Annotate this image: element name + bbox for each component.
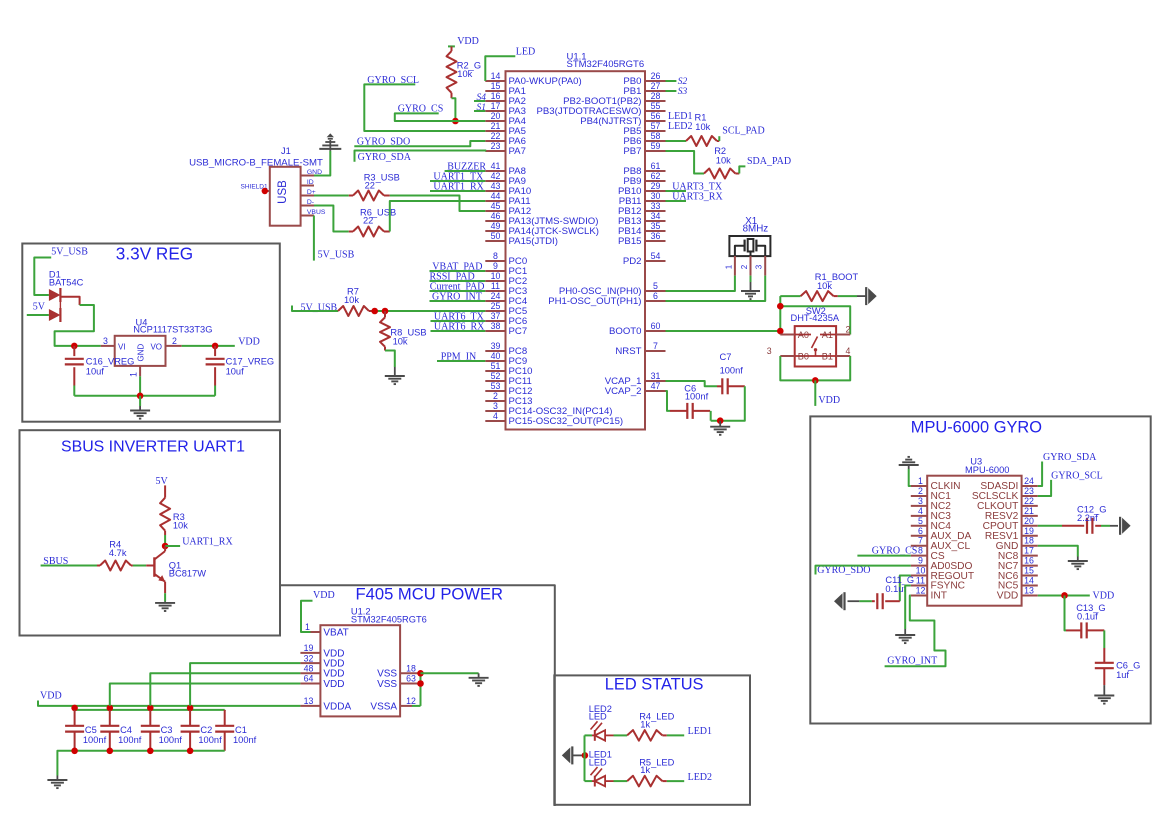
svg-text:0.1uf: 0.1uf <box>1077 612 1098 622</box>
U1.1 pin 50 PA15(JTDI) <box>485 231 558 247</box>
connector J1 USB_MICRO-B_FEMALE-SMT body <box>270 167 301 226</box>
svg-text:USB_MICRO-B_FEMALE-SMT: USB_MICRO-B_FEMALE-SMT <box>189 157 323 168</box>
wire U4 VO to VDD <box>182 345 235 347</box>
svg-text:36: 36 <box>651 231 661 241</box>
U3 pin 5 NC4 <box>911 516 951 532</box>
U1.1 pin 49 PA14(JTCK-SWCLK) <box>485 221 599 237</box>
ground (C6_G) <box>1094 685 1114 704</box>
wire BOOT0 to SW2 <box>666 330 781 332</box>
svg-text:25: 25 <box>491 301 501 311</box>
wire rail tie <box>74 706 76 710</box>
U1.1 pin 9 PC1 <box>485 261 527 277</box>
title F405 MCU POWER <box>356 585 504 604</box>
node junction SW2 bottom / VDD <box>812 377 819 384</box>
net label LED <box>516 46 535 57</box>
svg-text:34: 34 <box>651 211 661 221</box>
svg-text:PC7: PC7 <box>509 326 528 337</box>
wire GYRO_CS to CS pin 8 <box>857 555 910 557</box>
section box SBUS INVERTER UART1 <box>20 430 281 635</box>
node junction ground rail <box>147 748 154 755</box>
svg-text:0.1uf: 0.1uf <box>885 584 906 594</box>
node junction VDD rail <box>107 705 114 712</box>
wire BUZZER stub pin 41 <box>445 170 486 172</box>
svg-text:BOOT0: BOOT0 <box>609 326 642 337</box>
capacitor C4 100nf <box>100 710 141 751</box>
power flag + earth ground (USB) <box>319 133 341 150</box>
wire SW2 bottom loop <box>780 356 850 380</box>
svg-text:1: 1 <box>129 372 139 377</box>
svg-text:15: 15 <box>491 81 501 91</box>
title SBUS INVERTER UART1 <box>61 439 245 456</box>
U1.1 pin 27 PB1 <box>623 81 665 97</box>
svg-text:29: 29 <box>651 181 661 191</box>
net label RSSI_PAD <box>430 272 475 283</box>
wire R6_USB to PA11 pin 44 <box>390 201 486 232</box>
resistor R2 10k <box>704 146 739 179</box>
svg-text:23: 23 <box>491 141 501 151</box>
wire U4 GND down <box>139 376 141 396</box>
svg-text:6: 6 <box>653 291 658 301</box>
svg-text:22: 22 <box>491 131 501 141</box>
svg-text:PH1-OSC_OUT(PH1): PH1-OSC_OUT(PH1) <box>548 296 641 307</box>
wire C2 column to VDD pin 32 <box>190 663 300 706</box>
ground (VCAP) <box>710 421 730 435</box>
svg-text:14: 14 <box>491 71 501 81</box>
U1.2 pin 19 VDD <box>300 643 344 659</box>
regulator U4 NCP1117ST33T3G body <box>115 336 166 366</box>
section box MPU-6000 GYRO <box>810 416 1150 723</box>
svg-text:100nf: 100nf <box>159 735 183 745</box>
wire S3 stub pin 27 <box>666 90 677 92</box>
net label GYRO_SDO <box>357 137 410 148</box>
wire GYRO_SDA to SDASDI pin 24 <box>1038 462 1042 487</box>
U1.1 pin 36 PB15 <box>618 231 665 247</box>
U3 pin 17 NC8 <box>998 546 1038 562</box>
svg-text:LED STATUS: LED STATUS <box>605 675 704 693</box>
svg-text:VBAT: VBAT <box>323 627 348 638</box>
svg-text:VDD: VDD <box>238 337 260 348</box>
capacitor C1 100nf <box>215 710 256 751</box>
crystal X1 8MHz <box>729 216 770 256</box>
svg-text:32: 32 <box>304 653 314 663</box>
svg-text:47: 47 <box>651 381 661 391</box>
wire R2_G bottom to PA4 junction <box>452 98 456 121</box>
svg-text:2: 2 <box>493 391 498 401</box>
svg-text:46: 46 <box>491 211 501 221</box>
wire J1 D+ to R3_USB <box>314 195 349 197</box>
U1.1 pin 60 BOOT0 <box>609 321 666 337</box>
svg-text:58: 58 <box>651 131 661 141</box>
svg-text:C16_VREG: C16_VREG <box>86 356 135 366</box>
svg-text:2: 2 <box>918 486 923 496</box>
svg-text:LED1: LED1 <box>688 726 712 737</box>
wire RSSI_PAD stub pin 10 <box>430 280 486 282</box>
wire GYRO_CS to PA4 pin 20 <box>395 113 486 121</box>
wire SW2 left vertical <box>779 296 781 334</box>
net label S4 (PA2) <box>477 93 487 103</box>
node junction R7/R8_USB <box>371 308 388 315</box>
wire PB6 to R1 <box>666 140 687 142</box>
svg-text:GYRO_INT: GYRO_INT <box>887 656 937 667</box>
U3 pin 11 FSYNC <box>911 576 965 592</box>
net label SDA_PAD <box>747 156 791 167</box>
svg-text:12: 12 <box>916 585 926 595</box>
wire LED2 to R4_LED <box>614 734 628 736</box>
svg-text:18: 18 <box>1024 536 1034 546</box>
U4 pin 1 GND <box>129 366 141 377</box>
U1.1 pin 62 PB9 <box>623 171 665 187</box>
U1.2 pin 63 VSS <box>377 674 420 690</box>
svg-text:22: 22 <box>1024 496 1034 506</box>
wire R3_USB to PA12 pin 45 <box>390 196 486 212</box>
svg-text:A1: A1 <box>822 330 833 340</box>
U4 reference labels <box>133 317 212 334</box>
U1.1 pin 61 PB8 <box>623 161 665 177</box>
svg-text:10k: 10k <box>457 69 472 79</box>
net label GYRO_INT <box>432 292 482 303</box>
svg-text:VDD: VDD <box>457 36 479 47</box>
svg-text:3: 3 <box>755 264 764 269</box>
svg-text:DHT-4235A: DHT-4235A <box>791 313 840 323</box>
wire VDD below SW2 <box>814 380 816 406</box>
wire 3.3V REG ground rail <box>74 395 215 397</box>
net label VBAT_PAD <box>432 262 482 273</box>
U4 pin 2 VO <box>166 336 182 346</box>
title MPU-6000 GYRO <box>911 418 1042 436</box>
svg-text:VDD: VDD <box>818 395 840 406</box>
U3 pin 9 AD0SDO <box>911 556 973 572</box>
U1.1 pin 28 PB2-BOOT1(PB2) <box>563 91 665 107</box>
U1.1 pin 14 PA0-WKUP(PA0) <box>485 71 581 87</box>
U1.1 pin 44 PA11 <box>485 191 530 207</box>
node junction BOOT0/SW2 <box>777 328 784 335</box>
section box 3.3V REG <box>22 244 280 422</box>
U1.2 pin 64 VDD <box>300 674 344 690</box>
X1 pin 1 <box>724 256 735 276</box>
LED LED2 <box>585 704 614 741</box>
svg-text:5V_USB: 5V_USB <box>51 247 88 258</box>
wire VSS to ground <box>421 672 479 674</box>
ground (C11_G, left) <box>834 592 845 610</box>
svg-text:VDDA: VDDA <box>323 701 351 712</box>
U1.1 pin 42 PA9 <box>485 171 526 187</box>
ground (Q1) <box>155 601 175 611</box>
svg-text:3: 3 <box>767 346 772 356</box>
net label S2 (PB0) <box>678 77 688 87</box>
svg-text:55: 55 <box>651 101 661 111</box>
U1.1 pin 56 PB4(NJTRST) <box>580 111 665 127</box>
wire C3 column to VDD pin 48 <box>150 673 300 706</box>
svg-text:INT: INT <box>931 591 947 602</box>
J1 pin SHIELD1 <box>241 184 270 195</box>
net label VDD (SW2) <box>818 395 840 406</box>
svg-text:VDD: VDD <box>997 591 1019 602</box>
wire C16 to rail <box>73 386 75 396</box>
svg-text:11: 11 <box>491 281 500 291</box>
wire PB7 down to R2 <box>666 151 705 174</box>
U3 pin 1 CLKIN <box>911 476 961 492</box>
wire GYRO_SDA to PA7 pin 23 <box>355 151 487 162</box>
ground (3.3V REG) <box>130 406 150 419</box>
svg-text:100nf: 100nf <box>83 735 107 745</box>
svg-text:52: 52 <box>491 371 501 381</box>
capacitor C13_G 0.1uf <box>1066 603 1106 638</box>
svg-text:S3: S3 <box>678 87 688 97</box>
svg-text:4: 4 <box>846 346 851 356</box>
svg-text:1uf: 1uf <box>1116 670 1129 680</box>
wire GYRO_SCL to PA5 pin 21 <box>364 84 485 131</box>
U1.2 pin 12 VSSA <box>370 696 416 712</box>
net label UART3_RX <box>672 191 723 202</box>
resistor R2_G 10k <box>447 46 482 98</box>
U1.1 pin 38 PC7 <box>485 321 527 337</box>
svg-text:LED: LED <box>589 757 607 767</box>
U3 pin 22 CLKOUT <box>977 496 1038 512</box>
U3 pin 13 VDD <box>997 585 1038 601</box>
svg-text:20: 20 <box>1024 516 1034 526</box>
wire C7 to ground rail <box>711 386 745 420</box>
svg-text:8: 8 <box>918 546 923 556</box>
node junction ground rail <box>71 748 78 755</box>
wire X1 pin2 to ground <box>750 276 752 282</box>
svg-text:13: 13 <box>1024 585 1034 595</box>
svg-text:10k: 10k <box>344 295 359 305</box>
U4 pin 3 VI <box>101 336 115 346</box>
ground (VSS) <box>469 673 489 686</box>
svg-text:1k: 1k <box>640 719 650 729</box>
svg-text:1k: 1k <box>640 765 650 775</box>
U3 pin 8 CS <box>911 546 945 562</box>
svg-text:64: 64 <box>304 674 314 684</box>
wire VBAT_PAD stub pin 9 <box>430 270 486 272</box>
svg-text:VDD: VDD <box>323 679 344 690</box>
U1.2 pin 13 VDDA <box>300 696 351 712</box>
svg-text:49: 49 <box>491 221 501 231</box>
svg-text:BAT54C: BAT54C <box>49 278 84 288</box>
wire SW2 top loop <box>780 306 850 334</box>
wire 5V_USB to R7 <box>292 306 338 312</box>
wire GYRO_INT stub pin 24 <box>430 300 486 302</box>
svg-text:60: 60 <box>651 321 661 331</box>
wire S2 stub pin 26 <box>666 80 677 82</box>
net label S1 (PA3) <box>477 103 487 113</box>
svg-text:USB: USB <box>277 180 289 204</box>
wire C6 to ground rail <box>710 411 712 421</box>
wire 5V_USB to D1 anode <box>34 258 51 296</box>
wire VDD to VBAT pin 1 <box>301 601 313 632</box>
U1.1 pin 43 PA10 <box>485 181 531 197</box>
svg-text:STM32F405RGT6: STM32F405RGT6 <box>567 59 645 70</box>
net label SCL_PAD <box>722 126 764 137</box>
U1.1 pin 17 PA3 <box>485 101 526 117</box>
U1.1 pin 58 PB6 <box>623 131 665 147</box>
U1.1 pin 40 PC9 <box>485 351 527 367</box>
svg-text:50: 50 <box>491 231 501 241</box>
svg-text:LED: LED <box>516 46 535 57</box>
net label 5V_USB (VBUS) <box>318 249 355 260</box>
U1.1 pin 30 PB11 <box>619 191 666 207</box>
U3 pin 10 REGOUT <box>911 566 974 582</box>
node junction ground rail <box>107 748 114 755</box>
svg-text:30: 30 <box>651 191 661 201</box>
wire rail tie <box>149 706 151 710</box>
svg-text:PD2: PD2 <box>623 256 642 267</box>
svg-text:5: 5 <box>653 281 658 291</box>
U1.1 pin 29 PB10 <box>618 181 665 197</box>
svg-text:SBUS INVERTER UART1: SBUS INVERTER UART1 <box>61 439 245 456</box>
resistor R4 4.7k <box>97 540 133 571</box>
wire R5_LED to LED2 label <box>667 780 684 782</box>
U1.1 pin 52 PC11 <box>485 371 531 387</box>
svg-text:56: 56 <box>651 111 661 121</box>
U3 pin 16 NC7 <box>998 556 1038 572</box>
svg-text:B0: B0 <box>798 352 809 362</box>
U3 pin 14 NC5 <box>998 576 1038 592</box>
svg-text:12: 12 <box>406 696 416 706</box>
svg-text:17: 17 <box>491 101 501 111</box>
U1.1 pin 15 PA1 <box>485 81 526 97</box>
net label VDD (U1.2 VBAT) <box>313 590 335 601</box>
U1.1 pin 5 PH0-OSC_IN(PH0) <box>559 281 666 297</box>
svg-text:SCL_PAD: SCL_PAD <box>722 126 764 137</box>
net label GYRO_SDO (U3) <box>817 565 870 576</box>
svg-text:2: 2 <box>740 264 749 269</box>
U1.1 pin 33 PB12 <box>618 201 665 217</box>
svg-text:C1: C1 <box>235 725 247 735</box>
svg-text:27: 27 <box>651 81 661 91</box>
svg-text:59: 59 <box>651 141 661 151</box>
svg-text:38: 38 <box>491 321 501 331</box>
svg-text:10: 10 <box>916 566 926 576</box>
node junction ground rail <box>137 393 144 400</box>
U1.1 pin 4 PC15-OSC32_OUT(PC15) <box>485 411 623 427</box>
wire X1 pin1 to PH0 <box>666 276 735 291</box>
net label Current_PAD <box>430 282 485 293</box>
svg-text:C4: C4 <box>120 725 132 735</box>
ground (FSYNC) <box>895 629 915 643</box>
U1.1 pin 54 PD2 <box>623 251 666 267</box>
svg-text:19: 19 <box>304 643 314 653</box>
net label LED1 (PB4) <box>668 111 692 122</box>
wire UART3_TX stub pin 29 <box>666 190 687 192</box>
svg-text:2: 2 <box>172 336 177 346</box>
svg-text:43: 43 <box>491 181 501 191</box>
wire C13_G to C6_G <box>1103 630 1105 648</box>
capacitor C6_G 1uf <box>1095 648 1141 685</box>
U3 pin 3 NC2 <box>911 496 951 512</box>
svg-text:PA7: PA7 <box>509 146 526 157</box>
svg-text:10k: 10k <box>695 122 710 132</box>
svg-text:18: 18 <box>406 664 416 674</box>
net label 5V <box>33 301 46 312</box>
U3 pin 21 RESV2 <box>985 506 1038 522</box>
wire C4 column to VDD pin 64 <box>110 684 301 706</box>
svg-text:5V: 5V <box>156 476 169 487</box>
node junction R3/UART1_RX/collector <box>162 543 169 550</box>
LED LED1 <box>585 750 614 787</box>
svg-text:19: 19 <box>1024 526 1034 536</box>
net label 5V_USB (R7) <box>301 302 338 313</box>
svg-text:31: 31 <box>651 371 661 381</box>
net label UART6_RX <box>434 322 485 333</box>
svg-text:8: 8 <box>493 251 498 261</box>
capacitor C6 100nf <box>670 384 710 419</box>
svg-text:GYRO_SDO: GYRO_SDO <box>817 565 870 576</box>
U3 pin 24 SDASDI <box>980 476 1037 492</box>
U1.1 pin 55 PB3(JTDOTRACESWO) <box>536 101 665 117</box>
net label VDD (decoupling rail) <box>40 691 62 702</box>
U1.1 pin 45 PA12 <box>485 201 531 217</box>
svg-text:100nf: 100nf <box>720 366 744 376</box>
svg-text:VBUS: VBUS <box>307 209 326 216</box>
net label LED1 <box>688 726 712 737</box>
U1.1 pin 23 PA7 <box>485 141 526 157</box>
net label UART3_TX <box>672 181 723 192</box>
U1.1 pin 26 PB0 <box>623 71 665 87</box>
svg-text:LED: LED <box>589 712 607 722</box>
U1.1 pin 59 PB7 <box>623 141 665 157</box>
net label VDD (U4 output) <box>238 337 260 348</box>
wire R7 to PC5 pin 25 <box>375 310 486 312</box>
svg-text:LED2: LED2 <box>668 121 692 132</box>
svg-text:44: 44 <box>491 191 501 201</box>
svg-text:40: 40 <box>491 351 501 361</box>
wire INT to GYRO_INT <box>885 595 946 666</box>
U1.1 pin 11 PC3 <box>485 281 527 297</box>
diode D1 BAT54C <box>49 269 84 322</box>
svg-text:3: 3 <box>493 401 498 411</box>
switch SW2 DHT-4235A body <box>795 326 836 366</box>
capacitor C16_VREG 10uf <box>65 346 135 386</box>
svg-text:41: 41 <box>491 161 501 171</box>
U1.1 pin 34 PB13 <box>618 211 665 227</box>
U1.1 pin 8 PC0 <box>485 251 527 267</box>
U1.1 reference labels <box>567 52 645 70</box>
wire R3 to collector junction <box>164 535 166 546</box>
wire SBUS to R4 <box>41 565 97 567</box>
resistor R6_USB 22 <box>349 208 396 237</box>
U1.1 pin 22 PA6 <box>485 131 526 147</box>
wire LED to PA0 pin 14 <box>485 56 515 81</box>
SW2 pin B0 (3) <box>767 346 795 356</box>
svg-text:6: 6 <box>918 526 923 536</box>
U3 pin 12 INT <box>911 585 947 601</box>
svg-text:PC15-OSC32_OUT(PC15): PC15-OSC32_OUT(PC15) <box>509 416 624 427</box>
net label GYRO_SDA (U3) <box>1043 452 1097 463</box>
svg-text:28: 28 <box>651 91 661 101</box>
capacitor C7 100nf <box>717 352 745 394</box>
svg-text:PB7: PB7 <box>623 146 641 157</box>
svg-text:7: 7 <box>653 341 658 351</box>
svg-text:B1: B1 <box>822 352 833 362</box>
svg-text:C6_G: C6_G <box>1116 660 1140 670</box>
svg-text:VDD: VDD <box>1093 591 1115 602</box>
U3 pin 6 AUX_DA <box>911 526 972 542</box>
U1.1 pin 53 PC12 <box>485 381 532 397</box>
svg-text:MPU-6000: MPU-6000 <box>965 465 1009 475</box>
U1.1 pin 24 PC4 <box>485 291 528 307</box>
wire C17 to rail <box>214 386 216 396</box>
wire REGOUT to C11_G <box>900 576 911 602</box>
wire R1 to SCL_PAD <box>718 136 720 141</box>
svg-text:1: 1 <box>724 264 733 269</box>
svg-text:ID: ID <box>307 179 314 186</box>
svg-text:33: 33 <box>651 201 661 211</box>
U1.1 pin 51 PC10 <box>485 361 532 377</box>
wire UART6_RX stub pin 38 <box>431 330 486 332</box>
wire GYRO_SDO to AD0SDO pin 9 <box>816 566 911 575</box>
IC U3 MPU-6000 body <box>927 476 1021 606</box>
